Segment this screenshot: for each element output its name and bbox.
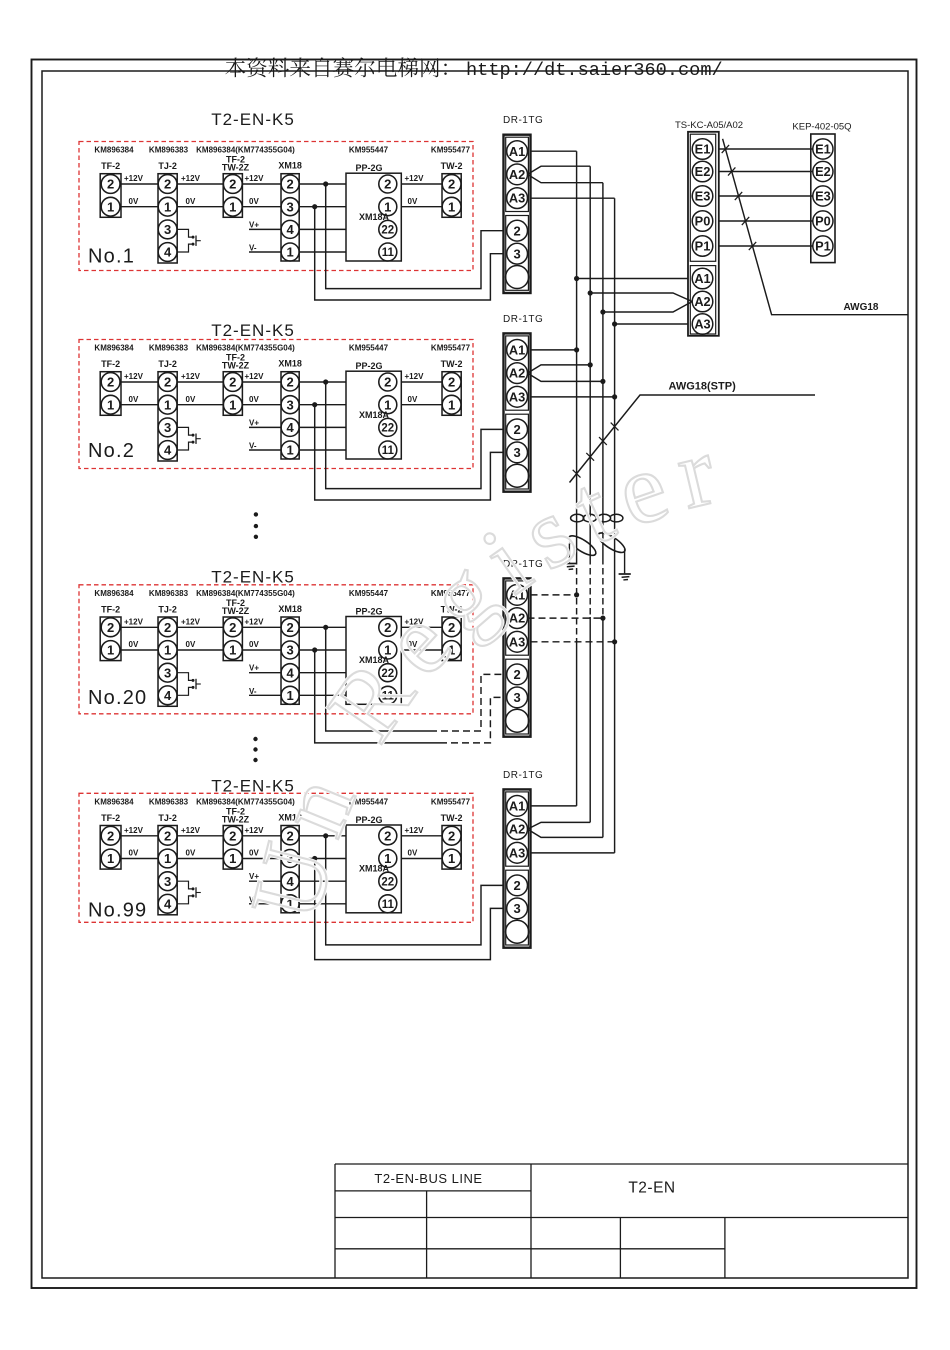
wire +12V row (No.20): [121, 618, 442, 628]
svg-text:+12V: +12V: [245, 174, 265, 183]
wire V+ stub (No.99): [249, 872, 346, 881]
svg-text:11: 11: [382, 899, 395, 911]
svg-text:KM955477: KM955477: [431, 797, 471, 806]
svg-text:1: 1: [448, 199, 455, 214]
svg-text:2: 2: [448, 375, 455, 390]
key switch across TJ-2 pins 3-4 (No.1): [177, 229, 201, 252]
svg-text:0V: 0V: [129, 849, 139, 858]
svg-text:KM896384: KM896384: [94, 589, 134, 598]
svg-text:1: 1: [286, 688, 293, 703]
svg-text:+12V: +12V: [124, 372, 144, 381]
junction node 0V to DR (No.20): [312, 647, 317, 652]
wire 0V row (No.99): [121, 849, 442, 859]
svg-text:2: 2: [107, 375, 114, 390]
svg-text:No.1: No.1: [88, 245, 135, 267]
svg-text:3: 3: [513, 901, 520, 916]
svg-text:E2: E2: [815, 164, 831, 179]
svg-text:+12V: +12V: [124, 174, 144, 183]
svg-text:2: 2: [229, 828, 236, 843]
svg-text:+12V: +12V: [181, 372, 201, 381]
svg-text:0V: 0V: [186, 640, 196, 649]
terminal block TF-2 TW-2Z (No.99) pins 2,1: [222, 806, 250, 869]
junction node +12V to DR (No.20): [323, 625, 328, 630]
converter PP-2G / XM18A (No.20) pins 2,1,22,11: [346, 606, 401, 704]
svg-text:4: 4: [164, 443, 172, 458]
svg-text:2: 2: [107, 828, 114, 843]
svg-text:A3: A3: [509, 845, 525, 860]
svg-text:1: 1: [448, 851, 455, 866]
key switch across TJ-2 pins 3-4 (No.2): [177, 427, 201, 450]
svg-text:A1: A1: [509, 343, 525, 358]
svg-text:3: 3: [286, 199, 293, 214]
svg-text:KM896383: KM896383: [149, 589, 189, 598]
connector DR-1TG (third): [503, 559, 543, 737]
svg-text:DR-1TG: DR-1TG: [503, 314, 543, 325]
junction node +12V to DR (No.1): [323, 181, 328, 186]
ground symbol pair1: [564, 564, 576, 570]
svg-text:KM896384(KM774355G04): KM896384(KM774355G04): [196, 344, 295, 353]
wire 0V row (No.2): [121, 395, 442, 405]
svg-text:PP-2G: PP-2G: [355, 361, 382, 371]
svg-text:1: 1: [229, 199, 236, 214]
svg-text:TF-2: TF-2: [101, 605, 120, 615]
wire P1 TS-KC to KEP: [719, 245, 813, 247]
wire 0V feed to DR-1TG pin3 (No.20) partly dashed: [315, 650, 440, 743]
svg-text:0V: 0V: [408, 849, 418, 858]
junction node +12V to DR (No.2): [323, 379, 328, 384]
wire E1 TS-KC to KEP: [719, 148, 813, 150]
module T2-EN-K5 No.1 outline: [79, 110, 473, 271]
svg-text:KM896384: KM896384: [94, 146, 134, 155]
wire DR4 A2 pair arrow: [528, 822, 603, 837]
svg-text:+12V: +12V: [181, 826, 201, 835]
wire bus A1 vertical: [576, 151, 578, 806]
svg-text:TW-2Z: TW-2Z: [222, 163, 250, 173]
svg-text:11: 11: [382, 247, 395, 259]
cable tick at 752.5,246: [749, 242, 756, 250]
svg-text:3: 3: [513, 246, 520, 261]
svg-text:2: 2: [164, 828, 171, 843]
svg-text:E2: E2: [695, 164, 711, 179]
key switch across TJ-2 pins 3-4 (No.20): [177, 673, 201, 696]
wire DR4 A1 to bus: [531, 805, 577, 807]
svg-text:2: 2: [384, 177, 391, 192]
junction node 0V to DR (No.99): [312, 856, 317, 861]
svg-text:+12V: +12V: [405, 174, 425, 183]
terminal block XM18 (No.2) pins 2,3,4,1: [278, 359, 302, 459]
svg-text:1: 1: [164, 397, 171, 412]
wire V- stub (No.1): [249, 244, 346, 253]
cable tick at 725.4,149: [722, 145, 729, 153]
wire bus to TS-KC A3: [615, 323, 688, 325]
svg-text:1: 1: [107, 643, 114, 658]
wire E3 TS-KC to KEP: [719, 195, 813, 197]
svg-text:KM955447: KM955447: [349, 146, 389, 155]
wire +12V feed to DR-1TG pin2 (No.20) partly dashed: [326, 627, 430, 731]
cable label AWG18(STP) with leader: [570, 381, 816, 483]
svg-text:3: 3: [513, 690, 520, 705]
wire bus to TS-KC A1: [577, 278, 688, 280]
wire 0V feed to DR-1TG pin3 (No.2): [315, 405, 504, 500]
svg-text:+12V: +12V: [124, 826, 144, 835]
svg-text:V+: V+: [249, 418, 259, 427]
wire DR-1TG top A1 to bus: [531, 150, 577, 152]
connector TS-KC-A05/A02: [675, 120, 743, 336]
svg-text:TW-2: TW-2: [441, 359, 463, 369]
svg-text:A1: A1: [509, 799, 525, 814]
svg-text:KM896384: KM896384: [94, 344, 134, 353]
junction node bus A3 to DR3: [612, 639, 617, 644]
wire DR2 A2 pair arrow: [528, 365, 603, 382]
svg-text:TW-2Z: TW-2Z: [222, 606, 250, 616]
svg-text:P0: P0: [815, 214, 831, 229]
wire V- stub (No.99): [249, 895, 346, 904]
wire V- stub (No.20): [249, 687, 346, 696]
svg-text:3: 3: [513, 445, 520, 460]
svg-text:1: 1: [286, 443, 293, 458]
svg-text:E1: E1: [695, 142, 711, 157]
header site text: [225, 57, 722, 80]
svg-text:2: 2: [229, 375, 236, 390]
svg-text:2: 2: [229, 177, 236, 192]
svg-text:1: 1: [107, 397, 114, 412]
svg-text:KM955477: KM955477: [431, 146, 471, 155]
svg-text:3: 3: [286, 643, 293, 658]
svg-text:+12V: +12V: [181, 618, 201, 627]
svg-text:2: 2: [107, 177, 114, 192]
svg-text:T2-EN-K5: T2-EN-K5: [211, 568, 295, 587]
junction node bus A1 to DR2: [574, 347, 579, 352]
svg-text:A1: A1: [694, 271, 710, 286]
wire bus A2b vertical: [602, 183, 604, 838]
svg-text:TW-2: TW-2: [441, 813, 463, 823]
svg-text:3: 3: [164, 665, 171, 680]
shield symbol pair1: [566, 532, 598, 562]
terminal block TJ-2 (No.2) pins 2,1,3,4: [158, 359, 177, 461]
svg-text:TS-KC-A05/A02: TS-KC-A05/A02: [675, 120, 743, 131]
svg-text:KM896384(KM774355G04): KM896384(KM774355G04): [196, 589, 295, 598]
svg-text:V+: V+: [249, 220, 259, 229]
svg-text:No.20: No.20: [88, 687, 147, 709]
terminal block TF-2 (No.1) pins 2,1: [100, 161, 121, 217]
svg-text:KM896383: KM896383: [149, 146, 189, 155]
svg-text:0V: 0V: [249, 640, 259, 649]
svg-text:1: 1: [448, 397, 455, 412]
svg-text:P0: P0: [695, 214, 711, 229]
terminal block TF-2 (No.2) pins 2,1: [100, 359, 121, 415]
svg-text:A3: A3: [509, 634, 525, 649]
svg-text:1: 1: [164, 851, 171, 866]
svg-text:No.99: No.99: [88, 900, 147, 922]
svg-text:0V: 0V: [186, 849, 196, 858]
twisted pair symbol pair2: [597, 514, 623, 522]
svg-text:TJ-2: TJ-2: [158, 161, 177, 171]
wire E2 TS-KC to KEP: [719, 171, 813, 173]
ellipsis dots between No.20 and No.99: [253, 737, 257, 762]
module T2-EN-K5 No.99 outline: [79, 777, 473, 923]
watermark Un Registered: [0, 0, 738, 930]
svg-text:1: 1: [229, 643, 236, 658]
terminal block TF-2 TW-2Z (No.2) pins 2,1: [222, 353, 250, 416]
terminal block TW-2 (No.1) pins 2,1: [441, 161, 463, 217]
svg-text:4: 4: [164, 896, 172, 911]
svg-text:0V: 0V: [186, 395, 196, 404]
svg-text:T2-EN: T2-EN: [628, 1180, 675, 1197]
svg-text:KM896383: KM896383: [149, 344, 189, 353]
converter PP-2G / XM18A (No.1) pins 2,1,22,11: [346, 163, 401, 261]
svg-text:4: 4: [286, 665, 294, 680]
svg-text:XM18: XM18: [278, 359, 302, 369]
terminal block TW-2 (No.2) pins 2,1: [441, 359, 463, 415]
terminal block TF-2 TW-2Z (No.20) pins 2,1: [222, 598, 250, 661]
svg-text:E3: E3: [815, 189, 831, 204]
svg-text:2: 2: [384, 375, 391, 390]
junction node bus A3 to TS-KC: [612, 321, 617, 326]
svg-text:3: 3: [286, 397, 293, 412]
svg-text:V-: V-: [249, 442, 257, 451]
svg-text:T2-EN-K5: T2-EN-K5: [211, 321, 295, 340]
wire bus A2a vertical: [589, 166, 591, 822]
terminal block TW-2 (No.20) pins 2,1: [441, 605, 463, 661]
cable tick at 731.7,171.5: [728, 167, 735, 175]
svg-text:TF-2: TF-2: [101, 813, 120, 823]
svg-text:E3: E3: [695, 189, 711, 204]
shield symbol pair2: [595, 529, 627, 573]
svg-text:2: 2: [513, 422, 520, 437]
svg-text:2: 2: [286, 375, 293, 390]
svg-text:A3: A3: [694, 317, 710, 332]
svg-text:22: 22: [381, 423, 394, 435]
svg-text:4: 4: [164, 245, 172, 260]
svg-text:KM896384(KM774355G04): KM896384(KM774355G04): [196, 146, 295, 155]
cable tick at (576.6,473.7): [573, 470, 581, 478]
svg-text:KM955477: KM955477: [431, 344, 471, 353]
svg-text:0V: 0V: [249, 395, 259, 404]
cable tick at (590.2,456.8): [586, 453, 594, 461]
svg-text:http://dt.saier360.com/: http://dt.saier360.com/: [466, 60, 723, 81]
junction node bus A2b to DR3: [600, 616, 605, 621]
svg-text:0V: 0V: [186, 197, 196, 206]
converter PP-2G / XM18A (No.2) pins 2,1,22,11: [346, 361, 401, 459]
svg-text:1: 1: [107, 851, 114, 866]
svg-text:1: 1: [229, 397, 236, 412]
wire DR4 A3 to bus: [531, 852, 615, 854]
svg-text:TJ-2: TJ-2: [158, 813, 177, 823]
module T2-EN-K5 No.2 outline: [79, 321, 473, 469]
svg-text:AWG18(STP): AWG18(STP): [669, 381, 737, 393]
wire DR3 A1 to bus dashed: [531, 594, 577, 596]
svg-text:2: 2: [164, 620, 171, 635]
svg-text:1: 1: [164, 199, 171, 214]
terminal block TJ-2 (No.20) pins 2,1,3,4: [158, 605, 177, 707]
wire DR3 A2 to bus dashed: [528, 617, 603, 619]
module T2-EN-K5 No.20 outline: [79, 568, 473, 714]
svg-text:AWG18: AWG18: [843, 302, 878, 313]
connector DR-1TG (bottom): [503, 770, 543, 948]
svg-text:TJ-2: TJ-2: [158, 605, 177, 615]
svg-text:TW-2: TW-2: [441, 161, 463, 171]
junction node bus A2b to TS-KC: [600, 309, 605, 314]
svg-text:22: 22: [381, 225, 394, 237]
junction nodes bus pair to DR2 A2: [588, 362, 593, 367]
junction node bus A3 to DR2: [612, 394, 617, 399]
svg-text:T2-EN-BUS LINE: T2-EN-BUS LINE: [374, 1171, 482, 1186]
svg-text:DR-1TG: DR-1TG: [503, 115, 543, 126]
twisted pair symbol pair1: [571, 514, 597, 522]
converter PP-2G / XM18A (No.99) pins 2,1,22,11: [346, 815, 401, 913]
svg-text:A2: A2: [509, 167, 525, 182]
svg-text:TJ-2: TJ-2: [158, 359, 177, 369]
svg-text:TF-2: TF-2: [101, 161, 120, 171]
wire DR2 A1 to bus: [531, 349, 577, 351]
svg-text:2: 2: [164, 375, 171, 390]
svg-text:1: 1: [164, 643, 171, 658]
wire +12V feed to DR-1TG pin2 (No.2): [326, 382, 504, 489]
key switch across TJ-2 pins 3-4 (No.99): [177, 881, 201, 904]
svg-text:2: 2: [164, 177, 171, 192]
wire DR3 A3 to bus dashed: [531, 641, 615, 643]
wire +12V feed to DR-1TG pin2 (No.1): [326, 184, 504, 289]
wire V+ stub (No.2): [249, 418, 346, 427]
terminal block TF-2 TW-2Z (No.1) pins 2,1: [222, 155, 250, 218]
svg-text:2: 2: [513, 667, 520, 682]
svg-text:4: 4: [286, 420, 294, 435]
junction node bus A2a to TS-KC: [588, 290, 593, 295]
wire +12V row (No.2): [121, 372, 442, 382]
terminal block XM18 (No.1) pins 2,3,4,1: [278, 161, 302, 261]
wire P0 TS-KC to KEP: [719, 220, 813, 222]
terminal block TJ-2 (No.99) pins 2,1,3,4: [158, 813, 177, 915]
cable tick at (614.6,426.5): [611, 423, 619, 431]
wire +12V feed to DR-1TG pin2 (No.99): [326, 836, 504, 945]
svg-text:4: 4: [164, 688, 172, 703]
svg-text:A2: A2: [509, 822, 525, 837]
connector DR-1TG (top): [503, 115, 543, 293]
svg-text:0V: 0V: [129, 197, 139, 206]
wire V- stub (No.2): [249, 442, 346, 451]
svg-text:2: 2: [513, 878, 520, 893]
svg-text:KM955447: KM955447: [349, 344, 389, 353]
svg-text:A2: A2: [509, 366, 525, 381]
junction node 0V to DR (No.1): [312, 204, 317, 209]
cable label AWG18 with leader: [723, 139, 908, 315]
svg-text:+12V: +12V: [405, 826, 425, 835]
svg-text:KM896383: KM896383: [149, 797, 189, 806]
connector DR-1TG (second): [503, 314, 543, 492]
terminal block XM18 (No.20) pins 2,3,4,1: [278, 604, 302, 704]
cable tick at 745.5,221: [742, 217, 749, 225]
wire 0V feed to DR-1TG pin3 (No.1): [315, 207, 504, 300]
svg-text:2: 2: [384, 828, 391, 843]
svg-text:0V: 0V: [408, 395, 418, 404]
cable tick at (602.9,441.0): [599, 437, 607, 445]
svg-text:+12V: +12V: [181, 174, 201, 183]
svg-text:A3: A3: [509, 191, 525, 206]
svg-text:1: 1: [107, 199, 114, 214]
wire 0V row (No.1): [121, 197, 442, 207]
wire pair arrow to TS-KC A2: [590, 293, 692, 312]
svg-text:1: 1: [229, 851, 236, 866]
svg-text:No.2: No.2: [88, 440, 135, 462]
svg-text:2: 2: [107, 620, 114, 635]
svg-text:V-: V-: [249, 244, 257, 253]
svg-text:2: 2: [286, 620, 293, 635]
cable tick at 738.5,196: [735, 192, 742, 200]
wire 0V feed to DR-1TG pin3 (No.99): [315, 859, 504, 960]
svg-text:22: 22: [381, 876, 394, 888]
ground symbol pair2: [619, 574, 631, 580]
svg-text:XM18: XM18: [278, 161, 302, 171]
wire +12V row (No.99): [121, 826, 442, 836]
svg-text:V+: V+: [249, 664, 259, 673]
svg-text:+12V: +12V: [245, 618, 265, 627]
wire V+ stub (No.20): [249, 664, 346, 673]
svg-text:1: 1: [286, 245, 293, 260]
wire DR-1TG top A3 to bus: [531, 197, 615, 199]
svg-text:+12V: +12V: [405, 372, 425, 381]
svg-text:E1: E1: [815, 142, 831, 157]
svg-text:2: 2: [513, 223, 520, 238]
svg-text:XM18: XM18: [278, 604, 302, 614]
connector KEP-402-05Q: [792, 122, 851, 263]
title block table: [335, 1164, 908, 1278]
svg-text:KM896384: KM896384: [94, 797, 134, 806]
svg-text:PP-2G: PP-2G: [355, 163, 382, 173]
svg-text:A3: A3: [509, 389, 525, 404]
svg-text:4: 4: [286, 222, 294, 237]
svg-text:+12V: +12V: [124, 618, 144, 627]
junction node +12V to DR (No.99): [323, 833, 328, 838]
wire DR-1TG top A2 pair arrow: [528, 166, 603, 183]
svg-text:3: 3: [164, 874, 171, 889]
junction node bus A1 to DR3: [574, 592, 579, 597]
wire bus A3 vertical: [614, 198, 616, 853]
wire +12V row (No.1): [121, 174, 442, 184]
terminal block TF-2 (No.20) pins 2,1: [100, 605, 121, 661]
svg-text:V-: V-: [249, 687, 257, 696]
svg-text:TW-2Z: TW-2Z: [222, 814, 250, 824]
svg-text:2: 2: [448, 177, 455, 192]
svg-text:2: 2: [286, 177, 293, 192]
svg-text:2: 2: [448, 828, 455, 843]
svg-text:3: 3: [164, 222, 171, 237]
junction node bus A1 to TS-KC: [574, 276, 579, 281]
junction node 0V to DR (No.2): [312, 402, 317, 407]
svg-text:A1: A1: [509, 144, 525, 159]
svg-text:0V: 0V: [408, 197, 418, 206]
ellipsis dots between No.2 and No.20: [254, 512, 258, 539]
svg-text:KEP-402-05Q: KEP-402-05Q: [792, 122, 851, 133]
terminal block TF-2 (No.99) pins 2,1: [100, 813, 121, 869]
terminal block TW-2 (No.99) pins 2,1: [441, 813, 463, 869]
svg-text:TW-2Z: TW-2Z: [222, 361, 250, 371]
svg-text:DR-1TG: DR-1TG: [503, 770, 543, 781]
svg-text:+12V: +12V: [245, 372, 265, 381]
svg-text:0V: 0V: [249, 197, 259, 206]
svg-text:TF-2: TF-2: [101, 359, 120, 369]
wire DR2 A3 to bus: [531, 396, 615, 398]
svg-text:A2: A2: [694, 294, 710, 309]
svg-text:11: 11: [382, 445, 395, 457]
svg-text:3: 3: [164, 420, 171, 435]
svg-text:0V: 0V: [129, 395, 139, 404]
svg-text:2: 2: [229, 620, 236, 635]
svg-text:P1: P1: [695, 239, 711, 254]
svg-text:T2-EN-K5: T2-EN-K5: [211, 110, 295, 129]
terminal block XM18 (No.99) pins 2,3,4,1: [278, 813, 302, 913]
wire 0V row (No.20): [121, 640, 442, 650]
svg-text:P1: P1: [815, 239, 831, 254]
